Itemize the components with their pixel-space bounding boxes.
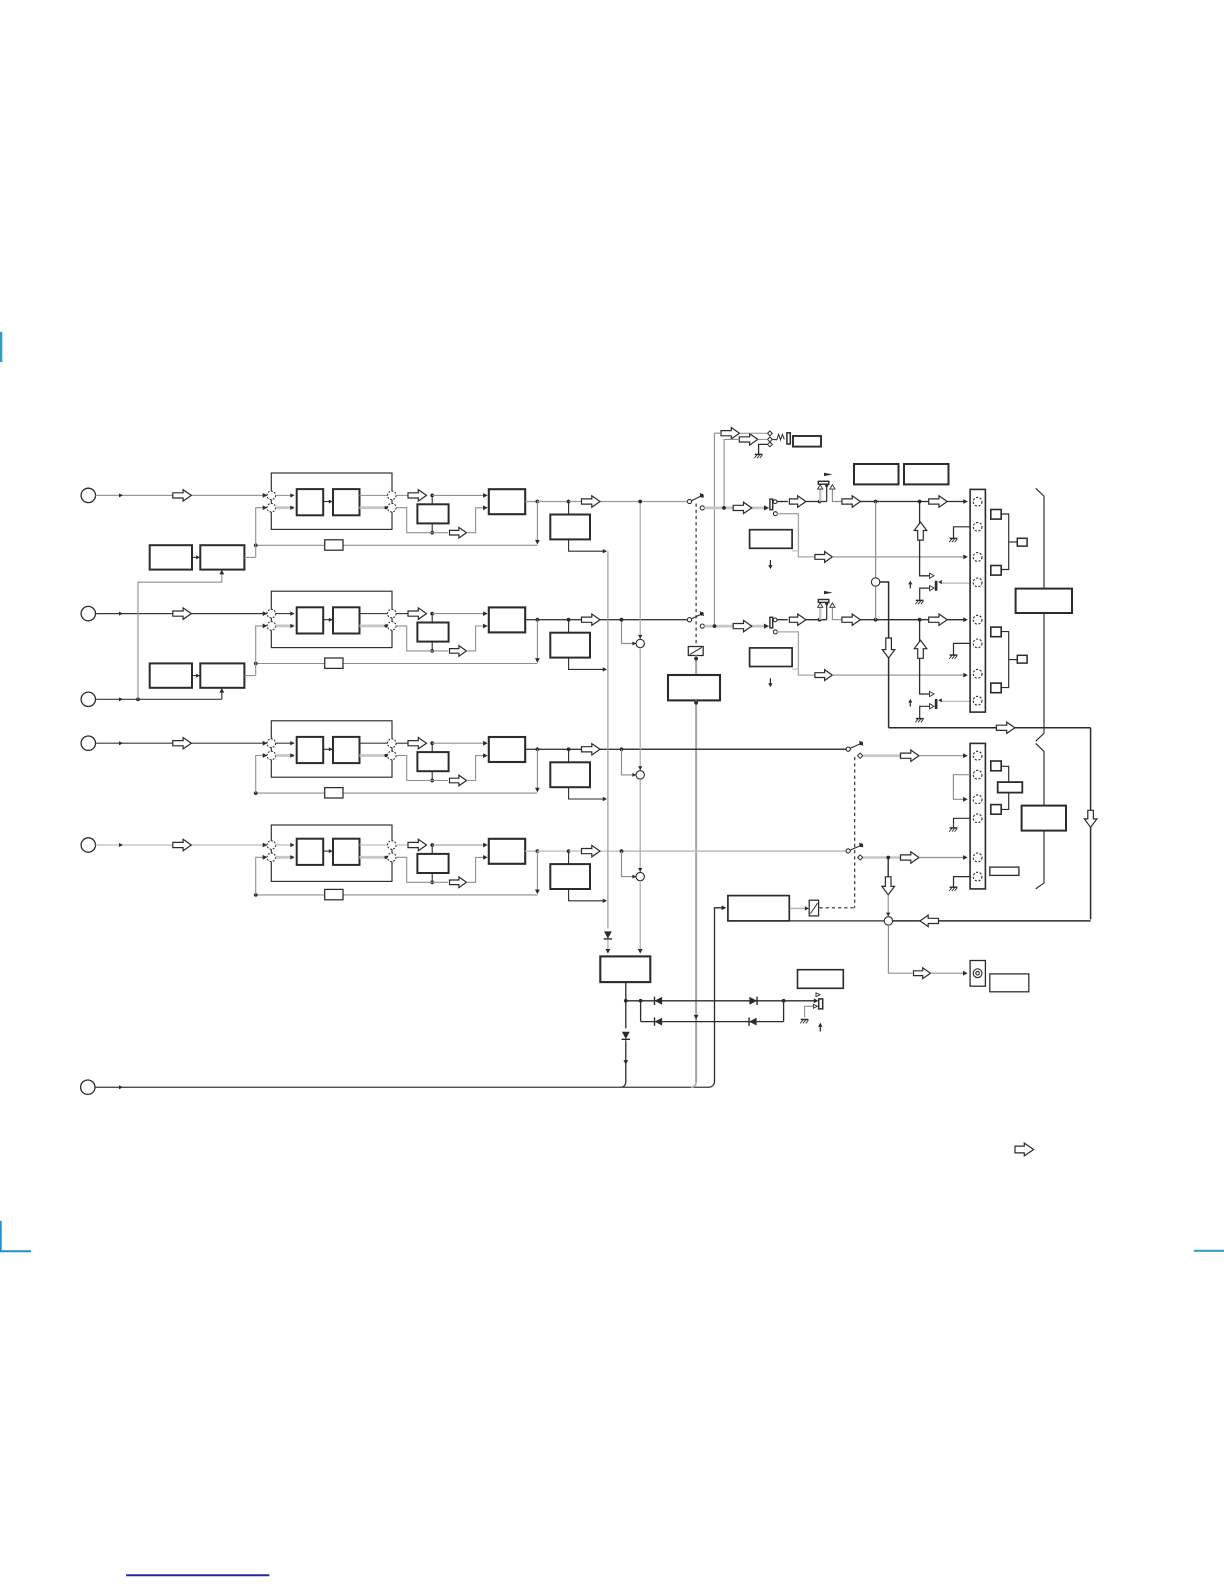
wire sum low to block CH1 — [276, 506, 295, 510]
wire aux riser 1 — [138, 570, 224, 700]
osc block 1a — [150, 545, 192, 569]
level arrow CH2 — [914, 640, 927, 658]
wire conn CH1 — [947, 499, 968, 504]
wire rear loop b — [889, 727, 1091, 729]
post block CH4 — [550, 864, 590, 889]
flow arrow right 1 — [996, 722, 1015, 733]
wire att CH4 b — [919, 855, 968, 860]
wire junction to sub CH1 — [431, 497, 433, 504]
feedback block CH2 — [325, 658, 343, 668]
osc block 2b — [200, 663, 244, 687]
wire mix CH12 b — [875, 586, 877, 620]
wire sum to block CH4 — [276, 843, 295, 847]
wire mute gnd CH1 — [920, 588, 930, 600]
wire CH4 mix — [886, 858, 890, 917]
wire volume out CH1 — [830, 485, 842, 502]
wire feedback CH2 — [254, 662, 538, 666]
wire feedback tap CH1 — [535, 502, 540, 545]
terminal square T1 — [991, 510, 1001, 520]
phones contact 1 — [768, 431, 773, 436]
wire att CH4 — [863, 856, 901, 860]
connector CN1 — [970, 489, 985, 712]
wire CN1 pin2 ground — [954, 527, 971, 538]
wire att CH3 b — [919, 753, 968, 758]
terminal square T5 — [991, 761, 1001, 771]
control dashed line front — [695, 504, 697, 647]
wire low to main CH1 — [467, 505, 488, 532]
wire sum to block CH3 — [276, 741, 295, 745]
rear terminal block — [998, 782, 1023, 793]
indicator up CH1 — [908, 581, 912, 589]
wire sum low to block CH4 — [276, 855, 295, 859]
wire mute tap CH2 — [920, 620, 930, 694]
feedback frame CH3 — [271, 721, 392, 777]
signal arrow mid CH4 — [408, 839, 427, 850]
selector out contact CH1 — [773, 500, 777, 504]
selector low contact CH2 — [773, 630, 777, 634]
wire CN1 pin6 ground — [954, 643, 971, 654]
mix node 2 — [636, 635, 644, 648]
speaker bracket 2 — [1000, 632, 1017, 688]
wire post block out CH4 — [569, 889, 607, 903]
volume control CH1 — [818, 473, 833, 502]
summing node CH3 in- — [267, 751, 276, 760]
summing node CH4 in- — [267, 853, 276, 862]
wire diode rail top — [626, 998, 819, 1003]
flow arrow left 1 — [920, 915, 939, 926]
switch S3 contact in — [846, 747, 850, 751]
wire phones feed 1 — [714, 433, 721, 626]
post block CH2 — [550, 633, 590, 658]
remote jack — [81, 1080, 95, 1094]
wire mix bus b — [639, 648, 641, 771]
signal arrow input CH2 — [173, 608, 192, 619]
wire mix bus c — [639, 779, 641, 872]
wire B out low CH2 — [360, 624, 388, 627]
signal arrow out CH4 — [582, 845, 601, 856]
wire phones ring — [758, 438, 768, 440]
connector CN2 pin 3 — [973, 795, 982, 804]
feedback block CH4 — [325, 889, 343, 899]
switch S3 contact out — [858, 753, 863, 758]
wire bottom bus — [95, 1085, 709, 1089]
selector bar CH1 — [770, 499, 773, 510]
wire post block out CH3 — [569, 787, 607, 801]
speaker block front — [1016, 589, 1072, 613]
wire bus to detector — [715, 905, 727, 1082]
wire CN2 jumper — [953, 775, 970, 802]
ground CN1 a — [949, 538, 957, 542]
output node CH2 hi — [388, 609, 397, 618]
wire sub out CH3 — [430, 771, 434, 782]
wire to main block CH4 — [432, 843, 488, 848]
diode D3 — [749, 997, 757, 1005]
wire CH3 mix feed — [622, 749, 637, 777]
speaker terminal 1 — [1017, 538, 1027, 546]
wire post bar CH2 — [777, 619, 788, 621]
ground CN1 b — [949, 655, 957, 659]
mute relay RY1 — [688, 647, 703, 656]
wire mix bus d — [638, 881, 643, 954]
signal arrow phones 1 — [721, 428, 740, 439]
wire node out CH1 — [396, 494, 408, 496]
wire mute tap CH1 — [920, 502, 930, 576]
terminal square T6 — [991, 805, 1001, 815]
switch S1 contact out — [700, 506, 704, 510]
signal arrow low CH2 — [450, 646, 467, 657]
wire post bar CH1 — [777, 501, 788, 503]
wire sub out CH1 — [430, 523, 434, 534]
wire mute out CH1 — [938, 580, 973, 584]
wire filter out — [624, 982, 628, 1003]
signal arrow phones 2 — [739, 434, 758, 445]
wire low to main CH4 — [467, 855, 488, 882]
switch S2 contact out — [700, 624, 704, 628]
connector CN1 pin 8 — [973, 696, 982, 705]
signal arrow conn CH1 — [929, 496, 948, 507]
wire line out — [888, 925, 912, 973]
osc block 2a — [150, 663, 192, 687]
output node CH3 lo — [388, 751, 397, 760]
wire sum low to block CH3 — [276, 753, 295, 757]
wire level link CH1 — [792, 550, 798, 552]
signal arrow mid CH3 — [408, 738, 427, 749]
wire sub out CH2 — [430, 642, 434, 653]
ground mute CH2 — [915, 719, 923, 723]
wire CN2 pin6 ground — [954, 877, 971, 887]
mute contact b CH1 — [930, 586, 934, 591]
wire low to main CH3 — [467, 753, 488, 780]
block B CH4 — [333, 839, 360, 865]
wire A to B CH4 — [323, 849, 333, 853]
sub block CH4 — [417, 854, 448, 873]
junction CH3 a — [430, 741, 434, 745]
wire mix bus a — [638, 500, 642, 640]
signal arrow post CH2 — [789, 614, 806, 625]
wire to volume CH1 — [806, 500, 827, 504]
wire node out CH4 — [396, 844, 408, 846]
main block CH3 — [489, 737, 525, 762]
wire B out CH1 — [360, 494, 388, 496]
wire line CH2 — [860, 618, 928, 622]
wire phones ground — [759, 444, 768, 453]
wire B out low CH1 — [360, 506, 388, 509]
wire sub bus — [607, 551, 609, 928]
wire sub bus b — [606, 940, 611, 954]
switch S4 contact out — [858, 855, 863, 860]
signal arrow mid CH2 — [408, 608, 427, 619]
registration mark cyan corner bottom-left — [1, 1221, 31, 1251]
wire to post block CH4 — [568, 851, 570, 864]
switch S2 contact in — [687, 618, 691, 622]
wire aux riser 2 — [219, 688, 224, 699]
mix node 4 — [636, 868, 644, 881]
signal arrow low CH1 — [450, 527, 467, 538]
group bracket rear — [1036, 743, 1044, 889]
signal arrow att CH1 — [733, 502, 752, 513]
ground power — [800, 1020, 808, 1024]
switch S1 blade — [692, 493, 704, 501]
wire att CH2 — [704, 624, 765, 628]
feedback frame CH1 — [271, 473, 392, 529]
connector CN2 pin 5 — [973, 853, 982, 862]
wire CN2 pin4 ground — [954, 818, 971, 827]
switch S4 contact in — [846, 849, 850, 853]
block A CH1 — [297, 489, 324, 515]
battery block — [798, 970, 844, 989]
filter block — [600, 956, 650, 982]
wire feedback tap CH4 — [535, 851, 540, 894]
wire main out CH2 — [525, 618, 621, 622]
connector CN2 pin 4 — [973, 814, 982, 823]
signal arrow input CH3 — [173, 738, 192, 749]
connector CN1 pin 3 — [973, 553, 982, 562]
indicator up power — [818, 1023, 822, 1032]
signal arrow out CH3 — [582, 744, 601, 755]
terminal square T2 — [991, 566, 1001, 576]
feedback block CH1 — [325, 540, 343, 550]
diode D2 — [655, 997, 663, 1005]
wire B out low CH4 — [360, 856, 388, 859]
diode D6 — [622, 1032, 630, 1040]
signal arrow bypass CH2 — [815, 670, 833, 681]
wire rear loop a — [880, 582, 889, 728]
wire mute gnd CH2 — [920, 706, 930, 718]
output node CH1 lo — [388, 503, 397, 512]
mute bar CH2 — [935, 699, 938, 709]
block A CH2 — [297, 607, 324, 633]
signal arrow line CH1 — [842, 496, 861, 507]
main block CH4 — [489, 839, 525, 864]
selector out contact CH2 — [773, 618, 777, 622]
level block CH2 — [750, 648, 793, 667]
wire sum to block CH1 — [276, 493, 295, 497]
wire CH3 to switch — [620, 747, 846, 751]
detector block — [728, 896, 789, 921]
wire input CH2 — [96, 611, 268, 616]
wire feedback CH1 — [254, 543, 538, 547]
input jack CH4 — [81, 838, 95, 852]
volume control CH2 — [818, 591, 833, 620]
post block CH1 — [550, 515, 590, 540]
mix node CH12 — [871, 578, 879, 586]
phones spring — [773, 434, 785, 440]
signal arrow line out — [914, 968, 931, 979]
block B CH2 — [333, 607, 360, 633]
wire att CH3 — [863, 754, 901, 757]
diode D4 — [655, 1017, 663, 1025]
line out jack rings — [973, 969, 982, 978]
sub block CH1 — [417, 504, 448, 523]
wire low bypass CH2 — [777, 632, 815, 675]
output node CH2 lo — [388, 622, 397, 631]
switch S3 blade — [850, 741, 863, 748]
feedback frame CH4 — [271, 825, 392, 881]
terminal square T4 — [991, 683, 1001, 693]
footer link underline — [126, 1574, 269, 1576]
power bar — [819, 999, 823, 1009]
wire relay to amp — [694, 656, 698, 676]
wire main out CH4 — [525, 849, 621, 853]
speaker bracket 3 — [1000, 766, 1008, 809]
wire to main block CH2 — [432, 611, 488, 616]
block B CH3 — [333, 737, 360, 763]
signal arrow input CH4 — [173, 839, 192, 850]
wire CH4 mix feed — [622, 851, 637, 879]
main block CH2 — [489, 607, 525, 632]
output node CH1 hi — [388, 491, 397, 500]
wire level link CH2 — [792, 668, 798, 670]
signal arrow footer — [1015, 1143, 1034, 1156]
bus curve 2 — [691, 1082, 696, 1087]
sub block CH2 — [417, 623, 448, 642]
flow arrow down 2 — [1084, 810, 1097, 827]
wire bypass conn CH2 — [832, 673, 968, 678]
wire to main block CH1 — [432, 493, 488, 498]
wire node out CH2 — [396, 613, 408, 615]
wire bypass conn CH1 — [832, 555, 968, 560]
signal arrow line CH2 — [842, 614, 861, 625]
signal arrow low CH4 — [450, 877, 467, 888]
wire low path CH1 — [396, 508, 448, 533]
connector CN1 pin 6 — [973, 639, 982, 648]
wire feedback riser CH3 — [256, 753, 268, 793]
feedback block CH3 — [325, 788, 343, 798]
diode D1 — [604, 931, 612, 939]
feedback frame CH2 — [271, 591, 392, 647]
flow arrow down 3 — [882, 877, 895, 895]
block A CH4 — [297, 839, 324, 865]
wire feedback tap CH2 — [535, 620, 540, 663]
signal arrow bypass CH1 — [815, 552, 833, 563]
wire low path CH4 — [396, 857, 448, 882]
group bracket front — [1036, 488, 1044, 741]
summing node CH1 in- — [267, 503, 276, 512]
signal arrow att CH2 — [733, 620, 752, 631]
wire CH2 to switch — [622, 619, 688, 621]
block A CH3 — [297, 737, 324, 763]
wire att CH1 — [704, 506, 765, 510]
input jack CH1 — [81, 488, 95, 502]
wire osc out 2 — [244, 675, 255, 677]
wire CH1 to switch — [622, 501, 688, 503]
ground CN2 a — [949, 828, 957, 832]
ground mute CH1 — [915, 600, 923, 604]
wire junction to sub CH2 — [431, 615, 433, 622]
phones contact 2 — [768, 437, 773, 442]
wire junction to sub CH4 — [431, 847, 433, 854]
wire main out CH3 — [525, 747, 621, 751]
phones contact 3 — [768, 442, 773, 447]
indicator arrow CH2 — [768, 678, 772, 687]
wire to post block CH3 — [568, 749, 570, 762]
wire input CH1 — [96, 493, 268, 498]
block B CH1 — [333, 489, 360, 515]
wire node to detector — [789, 920, 884, 922]
output node CH4 hi — [388, 841, 397, 850]
switch S4 blade — [850, 843, 863, 850]
input jack CH3 — [81, 736, 95, 750]
wire mix CH12 — [875, 502, 877, 578]
mute contact a CH1 — [930, 573, 934, 578]
signal arrow att CH3 — [901, 750, 920, 761]
wire to post block CH1 — [568, 502, 570, 515]
ground CN2 b — [949, 887, 957, 891]
switch S2 blade — [692, 611, 704, 619]
wire osc out 1 — [244, 556, 255, 558]
option block 2 — [904, 464, 949, 484]
wire sum to block CH2 — [276, 611, 295, 615]
power contact a — [816, 993, 820, 997]
selector bar CH2 — [770, 617, 773, 628]
wire post block out CH1 — [569, 539, 607, 553]
option block 1 — [854, 464, 899, 484]
control dashed link — [819, 907, 854, 909]
wire detector relay — [790, 906, 809, 910]
wire input CH3 — [96, 741, 268, 746]
wire sense down — [625, 1001, 627, 1029]
signal arrow input CH1 — [173, 490, 192, 501]
control dashed line rear — [854, 757, 856, 908]
wire A to B CH3 — [323, 747, 333, 751]
output node CH4 lo — [388, 853, 397, 862]
wire amp down bus — [694, 700, 699, 1082]
sub block CH3 — [417, 752, 448, 771]
wire rear loop d — [893, 920, 1091, 922]
wire post block out CH2 — [569, 658, 607, 672]
output node CH3 hi — [388, 739, 397, 748]
wire rear loop c — [1090, 728, 1092, 920]
line node — [884, 917, 892, 925]
connector CN1 pin 4 — [973, 578, 982, 587]
indicator up CH2 — [908, 699, 912, 707]
bus curve 1 — [621, 1082, 626, 1087]
signal arrow mid CH1 — [408, 490, 427, 501]
mute contact a CH2 — [930, 691, 934, 696]
wire mute out CH2 — [938, 698, 973, 702]
signal arrow post CH1 — [789, 496, 806, 507]
wire diode rail bottom — [641, 1021, 784, 1023]
speaker terminal 2 — [1017, 655, 1027, 663]
wire sub out CH4 — [430, 873, 434, 884]
indicator arrow CH1 — [768, 560, 772, 569]
signal arrow conn CH2 — [929, 614, 948, 625]
wire low bypass CH1 — [777, 514, 815, 557]
wire junction to sub CH3 — [431, 745, 433, 752]
post block CH3 — [550, 762, 590, 787]
wire low path CH2 — [396, 626, 448, 651]
rear small block — [990, 867, 1019, 875]
wire osc link 2 — [192, 674, 200, 678]
switch S1 contact in — [687, 499, 691, 503]
summing node CH2 in+ — [267, 609, 276, 618]
junction CH4 a — [430, 843, 434, 847]
terminal square T3 — [991, 627, 1001, 637]
mute bar CH1 — [935, 581, 938, 591]
wire node out CH3 — [396, 742, 408, 744]
wire conn CH2 — [947, 617, 968, 622]
summing node CH3 in+ — [267, 739, 276, 748]
connector CN2 pin 2 — [973, 770, 982, 779]
connector CN1 pin 5 — [973, 615, 982, 624]
connector CN1 pin 1 — [973, 497, 982, 506]
wire B out low CH3 — [360, 754, 388, 757]
wire B out CH3 — [360, 742, 388, 744]
ground phones — [754, 454, 762, 458]
wire input CH4 — [96, 843, 268, 848]
wire rail link right — [782, 999, 786, 1022]
registration mark cyan bar left — [0, 332, 2, 362]
